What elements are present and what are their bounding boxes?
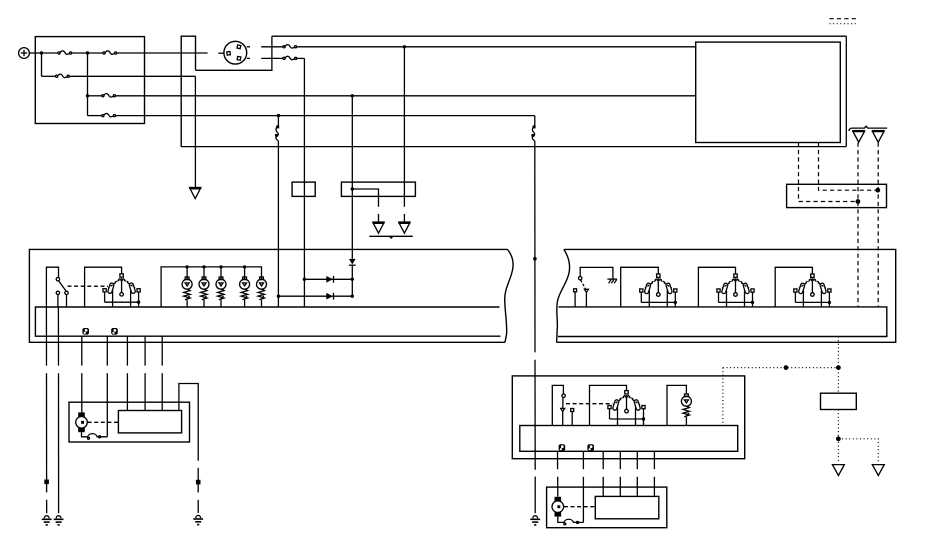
wire ignition out 2	[261, 57, 304, 59]
ground below connector column	[189, 188, 202, 199]
panel inner connector strip (right group)	[558, 307, 887, 337]
bulkhead connector column	[181, 36, 195, 146]
wire drop V3 (relay feed)	[403, 47, 405, 222]
terminal E1	[82, 328, 89, 335]
node splice A	[856, 199, 861, 204]
ECU box top right	[696, 42, 841, 142]
ground T4 (dotted net)	[832, 465, 844, 476]
ground chassis 4 (V6)	[530, 516, 540, 525]
fuse FB	[283, 56, 297, 59]
harness frame bottom	[181, 146, 846, 148]
lamp L6	[681, 394, 691, 426]
node R2 coil tap	[351, 187, 354, 190]
wire diode line B	[278, 295, 352, 297]
sub-box lamp L6	[667, 385, 686, 425]
node V6 splice	[533, 257, 537, 261]
dotted wire drop to cluster 2	[722, 368, 724, 426]
wire drop to row 4	[87, 96, 89, 116]
node splice park	[196, 480, 201, 485]
rotary switch RT4	[794, 274, 831, 307]
switch S2	[561, 394, 574, 426]
switch SW1 feed wire	[580, 267, 613, 279]
wire control exit 6	[653, 451, 655, 496]
dotted wire accessory net vertical	[837, 337, 839, 394]
node lamp 3 tap	[219, 265, 222, 268]
sub-box switch S2	[552, 385, 563, 425]
dotted legend line	[830, 23, 858, 25]
dotted wire below option box	[837, 410, 839, 463]
wire fuse row 3 (feed to ECU)	[88, 95, 696, 97]
wire drop V2 (accessory feed)	[303, 58, 305, 307]
dashed wire ground lead 2	[877, 143, 879, 307]
wire cluster exit 1 (to ground)	[45, 307, 47, 513]
ground chassis 2	[54, 516, 64, 525]
node dotted ground splice	[836, 436, 841, 441]
node M1 return splice	[98, 435, 101, 438]
rotary switch RT2	[640, 274, 677, 307]
fuse F2	[103, 51, 117, 54]
thermal switch on V5	[275, 125, 279, 140]
fuse F3	[56, 74, 70, 77]
wire control exit 5	[636, 451, 638, 496]
wire fuse row 4	[88, 115, 535, 117]
wire diode line A	[304, 278, 352, 280]
wire fuse row 2	[42, 75, 196, 77]
diode D3 (down)	[349, 259, 356, 265]
node F1-F2 junction	[86, 51, 89, 54]
terminal E3	[559, 444, 566, 451]
wire M2 return with hop	[558, 517, 584, 525]
dashed link S2 to rotary RT5	[566, 403, 613, 405]
connector box right	[787, 184, 887, 207]
instrument cluster box (left group)	[29, 249, 513, 342]
node diode B out	[351, 295, 354, 298]
node M2 return splice	[576, 521, 579, 524]
washer motor box	[547, 487, 667, 528]
wiper motor box left	[69, 402, 190, 442]
wire ground drop from connector column	[194, 76, 196, 187]
node line3 junction	[351, 94, 354, 97]
chassis hatch on SW1	[607, 279, 617, 283]
ground T3 (dotted net)	[872, 465, 884, 476]
wire drop to row 3	[87, 53, 89, 96]
wire drop V6 (long feed to wiper)	[534, 116, 536, 514]
node V2 to diode line A	[303, 278, 306, 281]
wire drop V5 (ign to cluster)	[277, 116, 279, 307]
wire fuse row 1	[42, 52, 208, 54]
sub-box rotary RT1	[85, 267, 122, 307]
ground chassis 1	[42, 516, 52, 525]
dashed wire ground lead 1	[857, 143, 859, 307]
wire drop to row 2	[41, 53, 43, 76]
lamp L2	[199, 277, 209, 307]
sub-box rotary RT2	[621, 267, 659, 307]
wire battery to fuse box	[29, 52, 41, 54]
node battery feed junction	[40, 51, 43, 54]
wire M1 return with hop	[82, 432, 108, 439]
sub-box rotary RT4	[775, 267, 812, 307]
sub-box rotary RT3	[698, 267, 735, 307]
relay R2 box	[341, 182, 415, 196]
wire cluster exit 4	[106, 336, 108, 437]
wire control exit 2	[582, 451, 584, 522]
switch S1	[56, 278, 68, 307]
ground chassis 3	[193, 515, 203, 524]
sub-box rotary RT5	[590, 385, 627, 425]
node line4 junction	[277, 114, 280, 117]
fuse F1	[58, 51, 72, 54]
node splice exit1	[44, 480, 49, 485]
diode D2	[326, 293, 333, 300]
wire cluster exit 3 (to motor)	[81, 336, 83, 412]
terminal E2	[111, 328, 118, 335]
wire control exit 3	[602, 451, 604, 496]
ground T1 (dashed lead)	[852, 131, 865, 143]
wire cluster exit 5	[126, 336, 128, 410]
node lamp 2 tap	[202, 265, 205, 268]
fuse F5	[102, 113, 116, 116]
wire R2 coil to ground leg	[352, 189, 378, 222]
wire control exit 4	[619, 451, 621, 496]
dotted wire accessory net horizontal	[723, 367, 839, 369]
cluster inner connector strip (left group)	[35, 307, 500, 336]
ground underline	[369, 236, 413, 238]
option component box	[821, 393, 857, 409]
wire ignition out 1	[261, 46, 696, 48]
wiper drive rectangle left	[118, 411, 181, 433]
motor M2	[552, 497, 564, 517]
motor M1	[76, 412, 88, 432]
node dotted splice mid	[784, 365, 789, 370]
switch SW1	[574, 277, 589, 307]
wire cluster exit 7	[161, 336, 163, 410]
diode D1	[326, 276, 333, 283]
dash legend line	[830, 18, 858, 20]
ground G2	[372, 222, 385, 233]
wire cluster exit 2 (to ground)	[57, 307, 59, 513]
wire loop from connector column to top frame	[196, 36, 272, 70]
switch panel box (right group)	[557, 249, 896, 342]
battery B+ symbol	[19, 48, 30, 59]
rotary RT5 drop extensions	[618, 423, 644, 426]
wire lamp stems	[187, 267, 245, 279]
lamp L3	[216, 277, 226, 307]
sub-box switch S1	[46, 267, 58, 307]
ignition switch connector	[218, 41, 250, 64]
node lamp 1 tap	[185, 265, 188, 268]
node lamp 4 tap	[243, 265, 246, 268]
lamp bus	[161, 267, 261, 307]
lamp L5	[257, 277, 267, 307]
node line1 junction	[403, 45, 406, 48]
fuse box outline	[35, 37, 144, 124]
terminal E4	[587, 444, 594, 451]
wire control exit 1 (to motor M2)	[557, 451, 559, 496]
node row3 junction	[86, 94, 89, 97]
relay R1 box	[292, 182, 315, 196]
node V5 to diode line B	[277, 295, 280, 298]
lamp L1	[182, 277, 192, 307]
ground bar top right	[849, 126, 887, 131]
dashed wire ECU out B	[819, 143, 878, 191]
dashed wire ECU out A	[799, 143, 858, 202]
ground G3	[398, 222, 411, 233]
control inner connector strip	[520, 426, 738, 452]
wire drop V4 (to diode pack)	[351, 96, 353, 296]
fuse FA	[283, 45, 297, 48]
harness frame top	[272, 35, 846, 37]
dotted wire branch to T3	[838, 439, 878, 463]
rotary switch RT5	[608, 391, 645, 424]
ground T2 (dashed lead)	[872, 131, 885, 143]
rotary switch RT1	[103, 274, 140, 307]
rotary switch RT3	[717, 274, 754, 307]
wire cluster exit 6	[144, 336, 146, 410]
washer control box (bottom center)	[512, 376, 744, 459]
node splice B	[875, 188, 880, 193]
harness frame right	[845, 36, 847, 146]
fuse F4	[102, 94, 116, 97]
dashed link M2 to pump	[564, 506, 595, 508]
dashed link M1 to drive	[88, 421, 119, 423]
node dotted splice right	[836, 365, 841, 370]
washer pump rectangle	[595, 496, 659, 518]
node diode A out	[351, 278, 354, 281]
lamp L4	[240, 277, 250, 307]
dashed link S1 to rotary	[68, 285, 109, 287]
wire park ground leg	[179, 384, 198, 513]
thermal switch on V6	[531, 125, 535, 140]
